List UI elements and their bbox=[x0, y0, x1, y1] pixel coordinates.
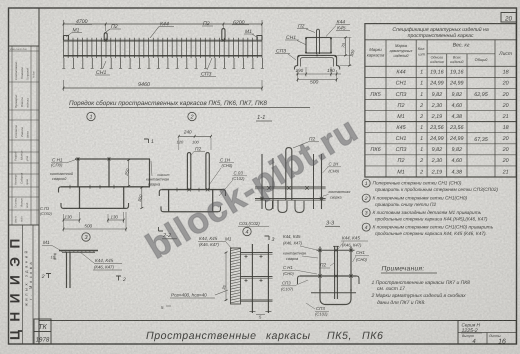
cage elevation K44 bbox=[62, 38, 263, 69]
section mark 3 bbox=[265, 236, 275, 243]
label SP3 bbox=[200, 58, 216, 78]
anchor plate M1 marks bbox=[64, 36, 263, 41]
specification table bbox=[365, 24, 516, 177]
P2 label bbox=[191, 146, 205, 155]
3-3 labels right bbox=[338, 236, 369, 263]
left stamp strip bbox=[8, 46, 40, 344]
step 3 vertical dims 250 500 bbox=[123, 159, 143, 209]
2-2 labels K44 K45 M1 bbox=[198, 236, 232, 249]
lifting loop P2 left bbox=[104, 33, 107, 40]
3-3 drawing stirrup bbox=[298, 246, 360, 305]
section mark 1-1 bbox=[256, 115, 272, 121]
step circle 3 bbox=[82, 233, 90, 241]
section labels bbox=[275, 20, 350, 61]
bottom dimension 9460 bbox=[63, 80, 263, 91]
numbered welding notes bbox=[362, 179, 498, 237]
bottom band line bbox=[39, 320, 516, 322]
hairpin loop right bbox=[206, 153, 209, 190]
3-3 bottom label SP3 bbox=[306, 303, 329, 317]
section mark 1 top bbox=[144, 139, 163, 231]
left margin labels SP3 bbox=[40, 206, 53, 216]
hairpin loop left bbox=[187, 153, 190, 190]
top dimension line 4700 6200 bbox=[63, 19, 263, 38]
step 4 labels right bbox=[209, 158, 247, 197]
side view right labels bbox=[323, 162, 351, 200]
drawing title bbox=[146, 330, 383, 342]
step 3 bottom dims 130 500 130 bbox=[63, 212, 127, 232]
M1 plate detail bbox=[42, 240, 98, 288]
cross-section view 1-1 bbox=[294, 29, 339, 69]
3-3 P2 label bbox=[319, 263, 334, 269]
note 2 bbox=[371, 293, 467, 306]
step 4 mesh bars bbox=[159, 188, 225, 212]
step circle 1 bbox=[87, 112, 95, 120]
section title 3-3 bbox=[325, 221, 340, 227]
2-2 weld detail drawing bbox=[231, 244, 273, 313]
section dims bbox=[296, 37, 356, 86]
step circle 4 bbox=[243, 227, 251, 235]
assembly order title bbox=[69, 100, 310, 108]
section marks 2 bbox=[41, 274, 126, 284]
TK 1978 stamp box bbox=[34, 319, 51, 344]
step 3 right weld label bbox=[146, 161, 169, 187]
section title 2-2 bbox=[162, 233, 177, 239]
lifting loop P2 mid bbox=[222, 29, 225, 41]
2-2 dims bbox=[161, 252, 265, 320]
label SN1 bbox=[95, 61, 110, 76]
step circle 2 bbox=[188, 112, 196, 120]
K44 K45 label bottom left bbox=[80, 252, 122, 270]
side view assembly diagram bbox=[255, 148, 326, 213]
step 3 labels bbox=[50, 158, 76, 182]
weld marks at loops bbox=[104, 39, 225, 42]
title block bbox=[458, 321, 516, 346]
step 4 diagram with loops P2 bbox=[177, 130, 212, 150]
step 3 diagram SN1 mesh bbox=[59, 158, 151, 209]
weld spec label bbox=[170, 290, 228, 298]
watermark bbox=[139, 108, 365, 266]
notes title bbox=[381, 266, 437, 274]
sheet number 20 box bbox=[501, 13, 516, 23]
note 1 bbox=[372, 280, 471, 292]
SP3 label under step 4 bbox=[238, 221, 269, 227]
3-3 labels left stack bbox=[281, 234, 318, 292]
side view P2 label bbox=[293, 137, 319, 149]
step 4 weld label left bbox=[157, 173, 170, 177]
